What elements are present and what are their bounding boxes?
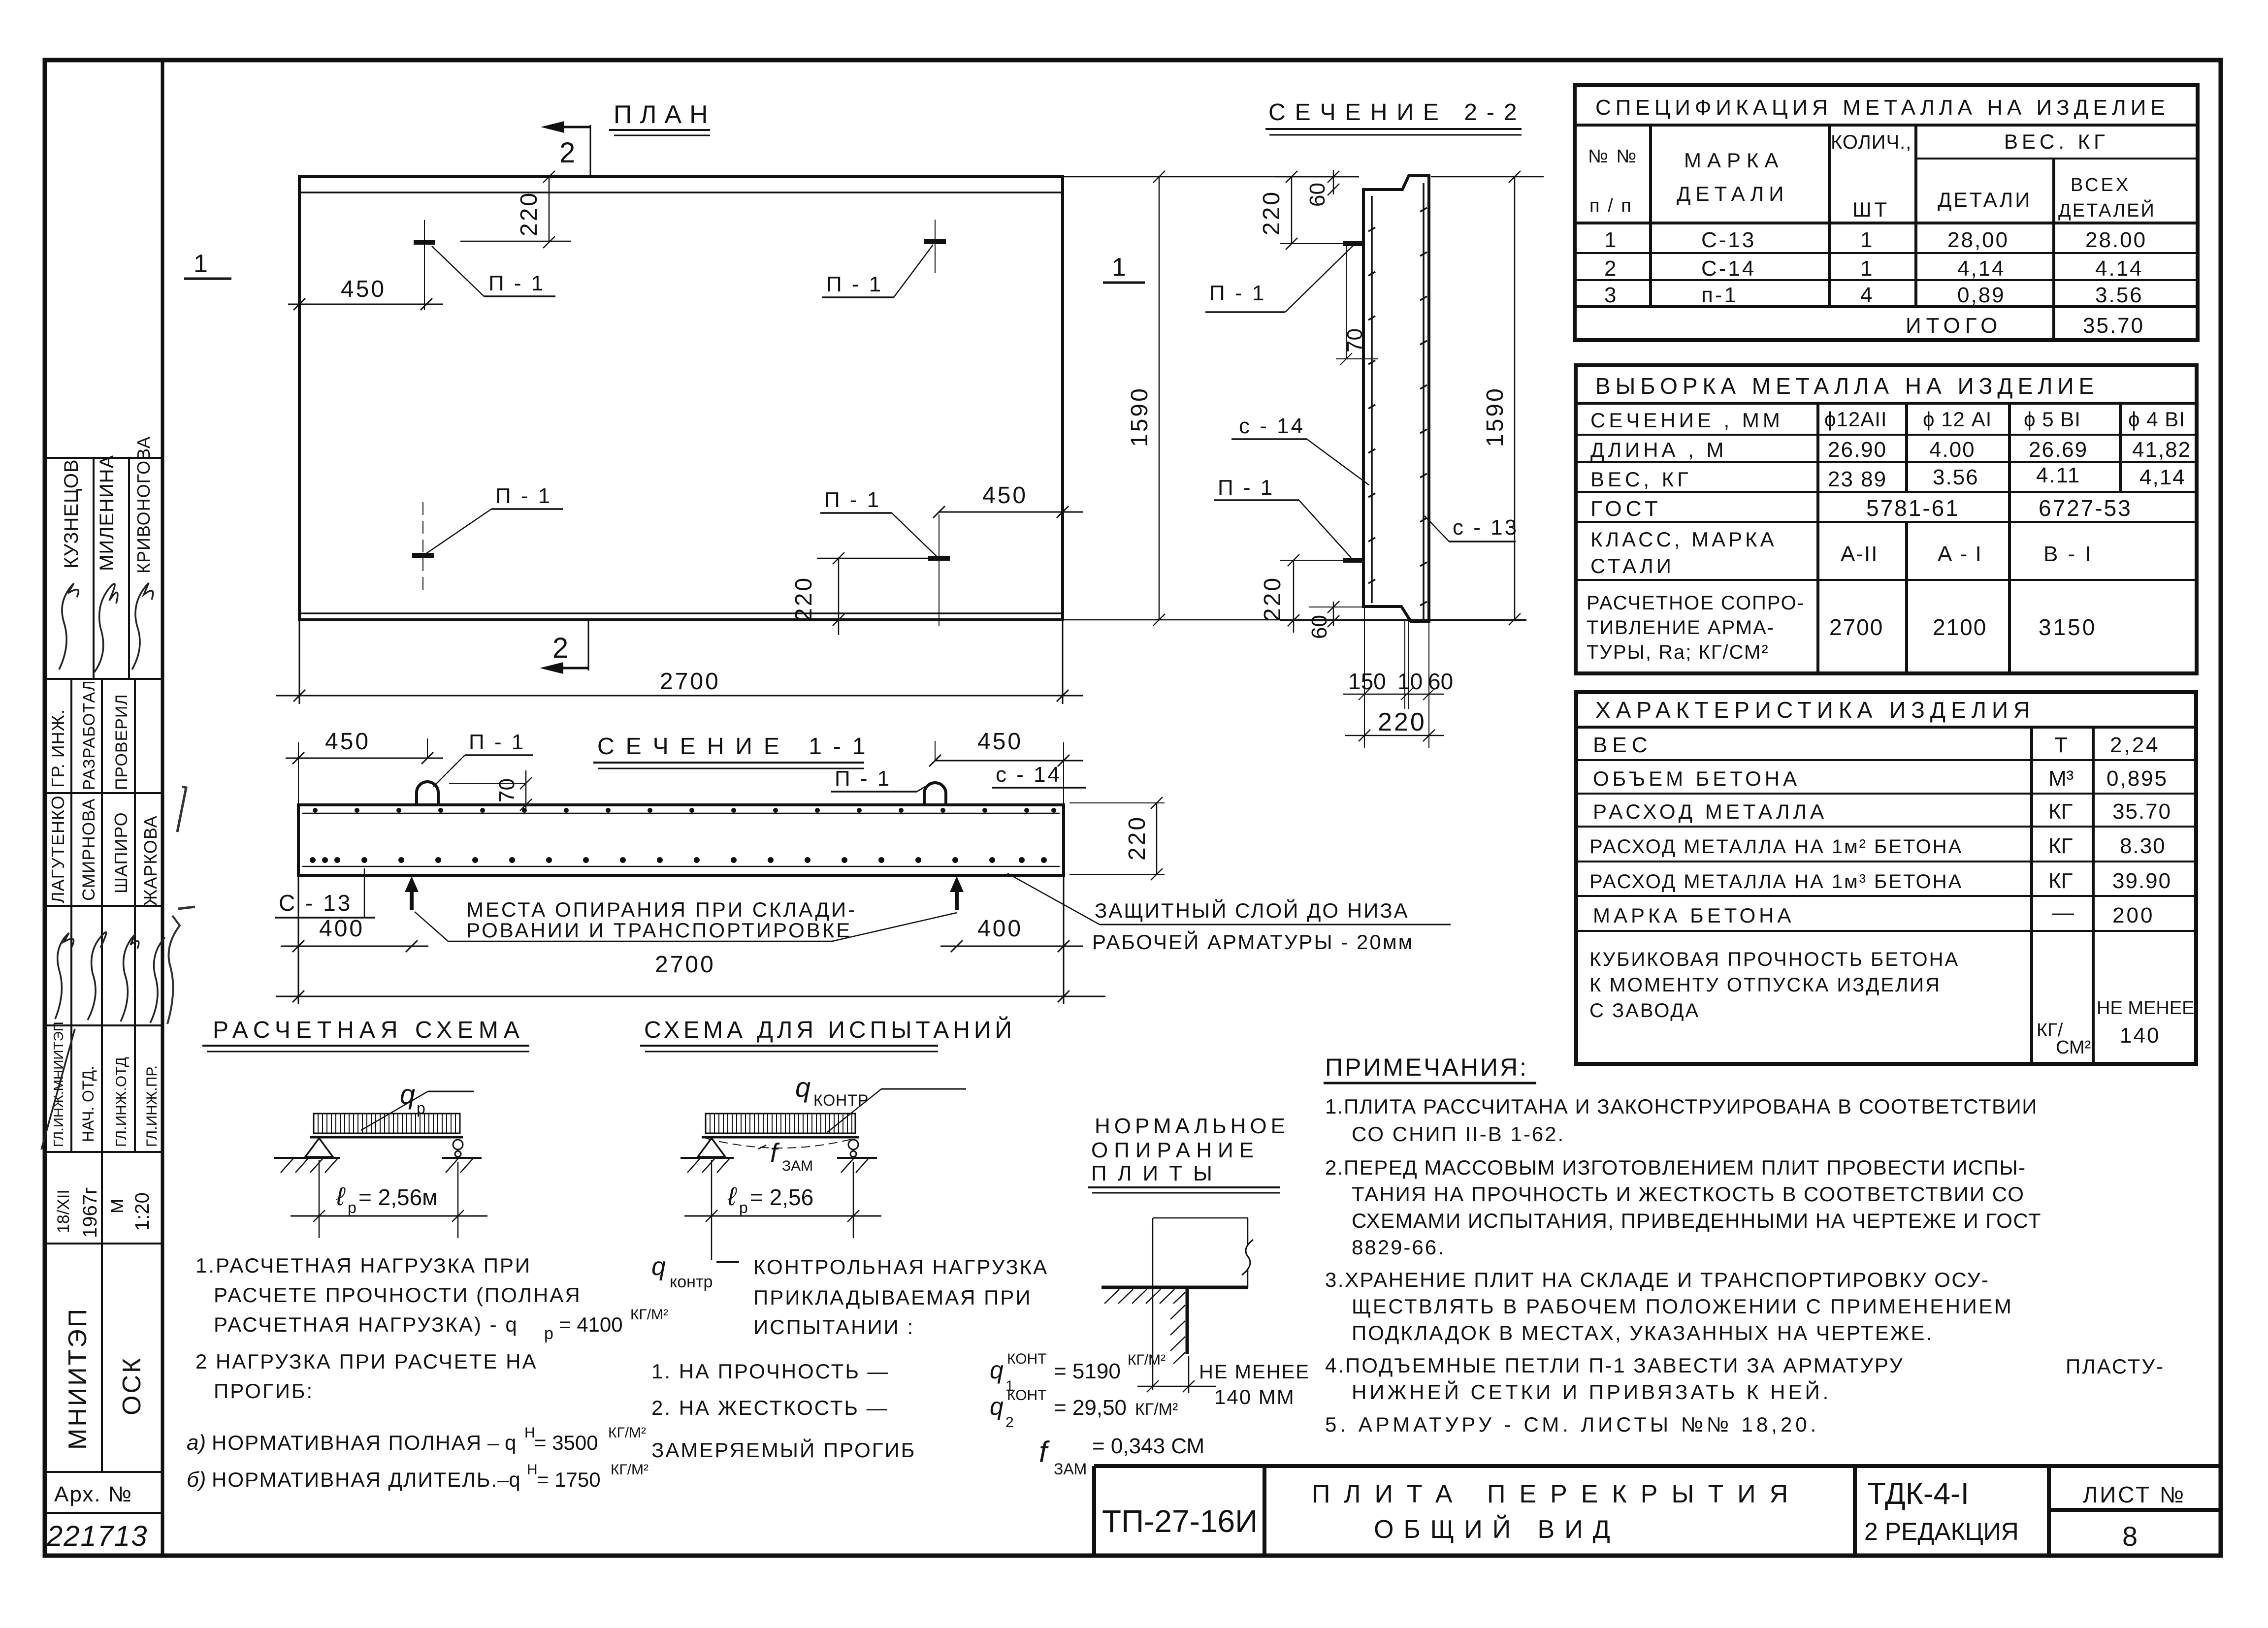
right text column under schemes	[651, 1247, 1204, 1478]
svg-text:КОНТРОЛЬНАЯ НАГРУЗКА: КОНТРОЛЬНАЯ НАГРУЗКА	[753, 1255, 1048, 1278]
loop tick section upper	[1343, 241, 1365, 246]
svg-text:ЛАГУТЕНКО: ЛАГУТЕНКО	[48, 795, 68, 903]
svg-text:р: р	[348, 1199, 356, 1216]
svg-text:ТУРЫ, Rа; КГ/СМ²: ТУРЫ, Rа; КГ/СМ²	[1587, 641, 1769, 663]
svg-text:ПЛАН: ПЛАН	[614, 100, 716, 129]
svg-text:ДЛИНА , М: ДЛИНА , М	[1590, 438, 1727, 461]
svg-text:СМ²: СМ²	[2056, 1037, 2091, 1058]
q_kontr label	[795, 1072, 966, 1132]
dim 220 right (section 1-1)	[1069, 797, 1165, 880]
dim 1590 section right	[1509, 171, 1521, 625]
label P-1 lower-left	[426, 484, 563, 553]
svg-text:НОРМАТИВНАЯ ПОЛНАЯ: НОРМАТИВНАЯ ПОЛНАЯ	[212, 1431, 482, 1454]
svg-text:18/XII: 18/XII	[54, 1189, 73, 1233]
svg-text:КГ/М²: КГ/М²	[1128, 1352, 1166, 1368]
svg-text:220: 220	[1260, 576, 1286, 621]
svg-text:СЕЧЕНИЕ 1-1: СЕЧЕНИЕ 1-1	[597, 734, 877, 760]
svg-text:МИЛЕНИНА: МИЛЕНИНА	[96, 455, 118, 571]
table: metal selection	[1576, 365, 2197, 673]
svg-text:ТДК-4-I: ТДК-4-I	[1867, 1477, 1969, 1511]
svg-text:КОНТ: КОНТ	[1007, 1387, 1046, 1404]
svg-text:НОРМАТИВНАЯ ДЛИТЕЛЬ.: НОРМАТИВНАЯ ДЛИТЕЛЬ.	[212, 1468, 498, 1491]
mesh C-14 top line with bar dots	[302, 808, 1060, 813]
svg-text:1:20: 1:20	[131, 1192, 153, 1231]
svg-text:К МОМЕНТУ ОТПУСКА ИЗДЕЛИЯ: К МОМЕНТУ ОТПУСКА ИЗДЕЛИЯ	[1589, 974, 1941, 996]
svg-text:q: q	[990, 1393, 1004, 1420]
sidebar divider	[161, 60, 164, 1556]
dim 1590 plan right	[1063, 171, 1544, 626]
svg-text:ℓ: ℓ	[727, 1182, 737, 1211]
svg-text:ЗАМ: ЗАМ	[1054, 1460, 1087, 1478]
label P-1 section upper	[1205, 245, 1354, 312]
svg-text:= 2,56: = 2,56	[750, 1184, 813, 1210]
svg-text:ОПИРАНИЕ: ОПИРАНИЕ	[1091, 1138, 1260, 1162]
svg-text:ШТ: ШТ	[1852, 198, 1890, 221]
svg-text:с - 14: с - 14	[996, 763, 1062, 787]
support places text	[415, 898, 957, 942]
svg-text:ПЛАСТУ-: ПЛАСТУ-	[2066, 1355, 2165, 1378]
svg-text:220: 220	[1378, 708, 1426, 736]
notes	[1324, 1053, 2165, 1436]
svg-text:ВЕС, КГ: ВЕС, КГ	[1590, 468, 1692, 491]
svg-text:450: 450	[977, 729, 1023, 755]
svg-text:= 5190: = 5190	[1054, 1359, 1121, 1383]
svg-text:ϕ 5 ВΙ: ϕ 5 ВΙ	[2024, 408, 2081, 431]
svg-text:220: 220	[516, 191, 542, 236]
svg-text:МАРКА БЕТОНА: МАРКА БЕТОНА	[1593, 904, 1795, 927]
svg-text:КГ/М²: КГ/М²	[611, 1462, 648, 1478]
svg-text:П - 1: П - 1	[824, 488, 881, 512]
dim 60 section top	[1328, 170, 1339, 195]
svg-text:q: q	[795, 1072, 810, 1103]
svg-text:Н: Н	[527, 1462, 538, 1478]
svg-text:28.00: 28.00	[2085, 228, 2147, 252]
svg-text:п-1: п-1	[1701, 283, 1738, 307]
section 1-1 title	[593, 734, 877, 768]
svg-text:контр: контр	[670, 1273, 713, 1291]
wall face thick line	[1186, 1287, 1189, 1354]
svg-text:= 4100: = 4100	[559, 1313, 623, 1336]
dim 70 (loop height)	[449, 770, 532, 811]
svg-text:28,00: 28,00	[1947, 228, 2009, 252]
svg-text:1: 1	[1112, 253, 1126, 282]
label C-13 (section 1-1)	[275, 868, 375, 918]
svg-text:5781-61: 5781-61	[1866, 495, 1960, 521]
svg-text:П - 1: П - 1	[488, 271, 545, 295]
svg-text:q: q	[990, 1356, 1004, 1384]
svg-text:2700: 2700	[660, 669, 720, 695]
svg-text:8: 8	[2122, 1521, 2138, 1552]
dim 220 section top	[1280, 171, 1343, 250]
svg-text:П - 1: П - 1	[826, 272, 883, 296]
svg-text:q: q	[400, 1079, 415, 1110]
svg-text:1: 1	[1860, 256, 1872, 281]
svg-text:150: 150	[1348, 669, 1386, 694]
left text column under schemes	[187, 1254, 668, 1492]
svg-text:КУЗНЕЦОВ: КУЗНЕЦОВ	[61, 459, 82, 569]
svg-text:Н: Н	[524, 1425, 535, 1441]
svg-text:ГР. ИНЖ.: ГР. ИНЖ.	[48, 709, 68, 788]
svg-text:2 РЕДАКЦИЯ: 2 РЕДАКЦИЯ	[1864, 1518, 2019, 1545]
svg-text:СО СНИП ΙΙ-В 1-62.: СО СНИП ΙΙ-В 1-62.	[1352, 1122, 1565, 1146]
svg-text:4.00: 4.00	[1929, 438, 1976, 462]
PLAN VIEW	[184, 100, 1544, 704]
svg-text:П - 1: П - 1	[495, 484, 552, 508]
svg-text:р: р	[739, 1199, 748, 1216]
svg-text:5. АРМАТУРУ - СМ. ЛИСТЫ №№: 5. АРМАТУРУ - СМ. ЛИСТЫ №№ 18,20.	[1325, 1413, 1819, 1436]
dim 400 right	[940, 940, 1083, 952]
svg-text:НИЖНЕЙ СЕТКИ И ПРИВЯЗАТЬ: НИЖНЕЙ СЕТКИ И ПРИВЯЗАТЬ К НЕЙ.	[1352, 1380, 1831, 1404]
SECTION 1-1	[275, 729, 1451, 1004]
svg-text:РАСЧЕТЕ ПРОЧНОСТИ (ПОЛНАЯ: РАСЧЕТЕ ПРОЧНОСТИ (ПОЛНАЯ	[214, 1283, 582, 1307]
svg-text:23 89: 23 89	[1828, 467, 1887, 491]
left pin support	[274, 1138, 340, 1173]
svg-text:0,89: 0,89	[1957, 283, 2006, 307]
svg-text:ДЕТАЛИ: ДЕТАЛИ	[1938, 188, 2032, 211]
svg-text:q: q	[651, 1252, 666, 1281]
svg-text:МАРКА: МАРКА	[1684, 149, 1784, 172]
svg-text:2700: 2700	[655, 952, 715, 978]
svg-text:2100: 2100	[1933, 614, 1987, 640]
svg-text:70: 70	[1343, 328, 1367, 352]
svg-text:ХАРАКТЕРИСТИКА ИЗДЕЛИЯ: ХАРАКТЕРИСТИКА ИЗДЕЛИЯ	[1595, 697, 2035, 723]
svg-text:ПРОВЕРИЛ: ПРОВЕРИЛ	[112, 694, 131, 790]
lifting loop tick upper-right	[924, 239, 946, 244]
svg-text:60: 60	[1307, 615, 1331, 639]
svg-text:ВЕС: ВЕС	[1593, 733, 1652, 757]
lifting loop tick upper-left	[414, 240, 435, 245]
svg-text:СХЕМАМИ ИСПЫТАНИЯ, ПРИВЕДЕННЫМ: СХЕМАМИ ИСПЫТАНИЯ, ПРИВЕДЕННЫМИ НА ЧЕРТЕ…	[1352, 1209, 2041, 1232]
svg-text:1. НА ПРОЧНОСТЬ —: 1. НА ПРОЧНОСТЬ —	[651, 1360, 890, 1383]
svg-text:ϕ12АΙΙ: ϕ12АΙΙ	[1824, 408, 1887, 431]
svg-text:ПРОГИБ:: ПРОГИБ:	[214, 1379, 314, 1403]
svg-text:ВСЕХ: ВСЕХ	[2071, 175, 2131, 195]
svg-text:200: 200	[2112, 903, 2154, 927]
svg-text:КГ: КГ	[2048, 799, 2073, 824]
sidebar tables	[45, 458, 162, 1513]
svg-text:КРИВОНОГОВА: КРИВОНОГОВА	[133, 436, 154, 574]
svg-text:С - 13: С - 13	[279, 890, 352, 916]
svg-text:1.РАСЧЕТНАЯ НАГРУЗКА ПРИ: 1.РАСЧЕТНАЯ НАГРУЗКА ПРИ	[195, 1254, 531, 1277]
slab outline plan	[299, 177, 1063, 620]
plan title	[609, 100, 716, 135]
svg-text:ТИВЛЕНИЕ АРМА-: ТИВЛЕНИЕ АРМА-	[1587, 617, 1775, 638]
dim 2700 plan bottom	[276, 620, 1083, 704]
dim 220 bottom center	[1345, 730, 1444, 741]
svg-text:0,895: 0,895	[2106, 766, 2168, 791]
svg-text:ГОСТ: ГОСТ	[1590, 497, 1662, 521]
svg-text:РАСЧЕТНАЯ СХЕМА: РАСЧЕТНАЯ СХЕМА	[213, 1017, 525, 1043]
dim 220 upper	[460, 171, 571, 248]
svg-text:1: 1	[194, 250, 208, 278]
label C-14 (section 1-1)	[992, 763, 1086, 788]
deflection curve	[706, 1138, 855, 1148]
svg-text:3: 3	[1604, 283, 1616, 307]
svg-text:ВЕС. КГ: ВЕС. КГ	[2004, 130, 2109, 153]
dim 400 left	[281, 940, 428, 952]
svg-text:2. НА ЖЕСТКОСТЬ —: 2. НА ЖЕСТКОСТЬ —	[651, 1396, 889, 1419]
svg-text:РАСЧЕТНОЕ СОПРО-: РАСЧЕТНОЕ СОПРО-	[1587, 592, 1805, 614]
svg-text:ЖАРКОВА: ЖАРКОВА	[140, 815, 161, 906]
svg-text:2: 2	[1604, 256, 1616, 281]
svg-text:р: р	[417, 1099, 425, 1117]
q_p label	[361, 1079, 474, 1130]
svg-text:26.69: 26.69	[2029, 438, 2088, 462]
svg-text:= 29,50: = 29,50	[1054, 1396, 1127, 1420]
top extension line	[1275, 176, 1359, 178]
mesh C-13 line	[1420, 183, 1427, 619]
svg-text:Т: Т	[2054, 733, 2068, 757]
svg-text:КЛАСС, МАРКА: КЛАСС, МАРКА	[1590, 528, 1777, 551]
svg-text:КОНТ: КОНТ	[1007, 1351, 1046, 1367]
dim 220 section bottom	[1280, 554, 1343, 633]
slab outline section 2-2	[1363, 176, 1429, 621]
wall/plate outline	[1102, 1218, 1253, 1390]
svg-text:РОВАНИИ И ТРАНСПОРТИРОВКЕ: РОВАНИИ И ТРАНСПОРТИРОВКЕ	[466, 919, 852, 942]
svg-text:– q: – q	[487, 1431, 516, 1454]
svg-text:6727-53: 6727-53	[2039, 495, 2132, 521]
svg-text:1.ПЛИТА РАССЧИТАНА И ЗАКОНСТРУ: 1.ПЛИТА РАССЧИТАНА И ЗАКОНСТРУИРОВАНА В …	[1325, 1095, 2038, 1118]
svg-text:8.30: 8.30	[2120, 834, 2166, 858]
svg-text:8829-66.: 8829-66.	[1352, 1236, 1445, 1259]
svg-text:РАСХОД МЕТАЛЛА НА 1м² БЕТОНА: РАСХОД МЕТАЛЛА НА 1м² БЕТОНА	[1589, 836, 1963, 858]
section mark 2 top	[541, 121, 590, 177]
svg-text:35.70: 35.70	[2083, 314, 2144, 338]
right roller support	[837, 1140, 877, 1173]
svg-text:= 3500: = 3500	[534, 1431, 598, 1454]
svg-text:П - 1: П - 1	[835, 766, 891, 791]
label P-1 lower-right	[820, 488, 937, 556]
CALCULATION SCHEME (left beam diagram)	[202, 1017, 529, 1238]
svg-text:ОСК: ОСК	[118, 1356, 146, 1415]
section mark 1 right	[1103, 253, 1145, 283]
svg-text:ИСПЫТАНИИ :: ИСПЫТАНИИ :	[753, 1315, 914, 1339]
svg-text:ПРИКЛАДЫВАЕМАЯ ПРИ: ПРИКЛАДЫВАЕМАЯ ПРИ	[753, 1286, 1032, 1309]
label P-1 upper-right	[822, 245, 933, 297]
table: specification of metal	[1575, 85, 2198, 340]
dims 150 10 60 bottom	[1343, 607, 1444, 748]
section mark 1 left	[184, 250, 231, 279]
svg-text:С ЗАВОДА: С ЗАВОДА	[1589, 1000, 1700, 1021]
svg-text:ИТОГО: ИТОГО	[1906, 314, 2002, 338]
svg-text:С-13: С-13	[1701, 228, 1756, 252]
svg-text:2 НАГРУЗКА ПРИ РАСЧЕТЕ НА: 2 НАГРУЗКА ПРИ РАСЧЕТЕ НА	[195, 1350, 537, 1373]
svg-text:П - 1: П - 1	[469, 730, 525, 754]
svg-text:КГ/М²: КГ/М²	[608, 1425, 646, 1441]
left pin support	[680, 1138, 734, 1173]
support arrow left	[405, 876, 419, 910]
lifting loop tick lower-right	[928, 556, 950, 561]
svg-text:1: 1	[1604, 228, 1616, 252]
svg-text:П - 1: П - 1	[1218, 476, 1274, 500]
NORMAL BEARING OF SLAB detail	[1088, 1114, 1310, 1408]
label C-13 section	[1425, 515, 1519, 542]
svg-text:2.ПЕРЕД МАССОВЫМ ИЗГОТОВЛЕНИЕМ: 2.ПЕРЕД МАССОВЫМ ИЗГОТОВЛЕНИЕМ ПЛИТ ПРОВ…	[1325, 1156, 2026, 1179]
lifting loop tick lower-left	[412, 553, 434, 558]
svg-text:2700: 2700	[1829, 614, 1883, 640]
svg-text:ТП-27-16И: ТП-27-16И	[1102, 1503, 1258, 1539]
svg-text:СМИРНОВА: СМИРНОВА	[79, 798, 98, 901]
svg-text:КГ: КГ	[2048, 869, 2073, 893]
svg-text:= 0,343 СМ: = 0,343 СМ	[1092, 1434, 1204, 1458]
svg-text:3.56: 3.56	[1933, 465, 1979, 489]
svg-text:220: 220	[1259, 190, 1285, 235]
svg-text:ШАПИРО: ШАПИРО	[111, 812, 131, 894]
svg-text:ЩЕСТВЛЯТЬ В РАБОЧЕМ ПОЛОЖЕНИИ: ЩЕСТВЛЯТЬ В РАБОЧЕМ ПОЛОЖЕНИИ С ПРИМЕНЕН…	[1352, 1295, 2013, 1318]
svg-text:№ №: № №	[1588, 146, 1638, 167]
svg-text:МНИИТЭП: МНИИТЭП	[64, 1307, 92, 1450]
loop tick section lower	[1343, 558, 1365, 563]
svg-text:РАСХОД МЕТАЛЛА: РАСХОД МЕТАЛЛА	[1593, 800, 1827, 823]
title block	[1094, 1466, 2221, 1556]
section 2-2 title	[1265, 99, 1526, 135]
svg-text:450: 450	[341, 276, 386, 302]
svg-text:1967г: 1967г	[79, 1187, 101, 1238]
svg-text:ОБЪЕМ БЕТОНА: ОБЪЕМ БЕТОНА	[1593, 767, 1800, 790]
label P-1 left (section 1-1)	[433, 730, 533, 787]
svg-text:НАЧ. ОТД.: НАЧ. ОТД.	[79, 1066, 97, 1142]
svg-text:60: 60	[1428, 669, 1453, 694]
dim 60 section bottom	[1309, 601, 1364, 627]
label P-1 right (section 1-1)	[831, 766, 927, 792]
svg-text:39.90: 39.90	[2112, 869, 2171, 893]
svg-text:М³: М³	[2048, 766, 2074, 791]
lifting loop П-1 right (section)	[924, 783, 946, 806]
svg-text:НЕ МЕНЕЕ: НЕ МЕНЕЕ	[1199, 1361, 1310, 1383]
svg-text:4,14: 4,14	[2139, 465, 2186, 489]
svg-text:А-ΙΙ: А-ΙΙ	[1841, 542, 1878, 566]
svg-text:41,82: 41,82	[2132, 438, 2191, 462]
section mark 2 bottom	[540, 621, 588, 674]
svg-text:ϕ 4 ВΙ: ϕ 4 ВΙ	[2128, 408, 2185, 431]
dim 70 section	[1336, 246, 1378, 365]
protective layer note	[1007, 873, 1451, 954]
svg-text:1590: 1590	[1482, 386, 1508, 447]
svg-text:140: 140	[2120, 1023, 2160, 1048]
dim 450 right (section 1-1)	[929, 741, 1083, 807]
TEST SCHEME (right beam diagram)	[640, 1016, 1016, 1260]
svg-text:220: 220	[1124, 815, 1150, 861]
svg-text:РАСХОД МЕТАЛЛА НА 1м³ БЕТОНА: РАСХОД МЕТАЛЛА НА 1м³ БЕТОНА	[1589, 871, 1963, 893]
svg-text:КГ/М²: КГ/М²	[630, 1307, 668, 1323]
lifting loop П-1 left (section)	[417, 782, 438, 806]
svg-text:с - 13: с - 13	[1453, 515, 1519, 540]
svg-text:КГ/М²: КГ/М²	[1135, 1400, 1178, 1419]
svg-text:220: 220	[791, 576, 817, 621]
svg-text:1: 1	[1860, 228, 1872, 252]
dim 2700 (section 1-1)	[276, 875, 1105, 1004]
svg-text:ВЫБОРКА МЕТАЛЛА НА ИЗДЕЛ: ВЫБОРКА МЕТАЛЛА НА ИЗДЕЛИЕ	[1595, 373, 2099, 399]
svg-text:ℓ: ℓ	[336, 1182, 346, 1211]
svg-text:МЕСТА ОПИРАНИЯ ПРИ СКЛАДИ-: МЕСТА ОПИРАНИЯ ПРИ СКЛАДИ-	[466, 898, 857, 921]
svg-text:КОЛИЧ.,: КОЛИЧ.,	[1831, 131, 1912, 153]
dim 450 upper-left	[288, 298, 443, 310]
svg-text:450: 450	[325, 729, 370, 755]
svg-text:—: —	[2052, 900, 2074, 925]
svg-text:НОРМАЛЬНОЕ: НОРМАЛЬНОЕ	[1095, 1114, 1289, 1138]
svg-text:КГ: КГ	[2048, 834, 2073, 858]
svg-text:а): а)	[187, 1431, 206, 1455]
svg-text:НЕ МЕНЕЕ: НЕ МЕНЕЕ	[2097, 998, 2194, 1019]
svg-text:400: 400	[977, 916, 1023, 942]
svg-text:П - 1: П - 1	[1209, 281, 1266, 305]
svg-text:СПЕЦИФИКАЦИЯ МЕТАЛЛА НА ИЗД: СПЕЦИФИКАЦИЯ МЕТАЛЛА НА ИЗДЕЛИЕ	[1595, 96, 2170, 120]
dim 450 lower-right	[933, 506, 1083, 518]
svg-text:ОБЩИЙ ВИД: ОБЩИЙ ВИД	[1374, 1515, 1620, 1544]
svg-text:ДЕТАЛИ: ДЕТАЛИ	[1677, 182, 1788, 205]
svg-text:М: М	[107, 1199, 127, 1213]
label P-1 section lower	[1214, 476, 1351, 558]
diagonal slash over roles cell	[41, 1029, 75, 1149]
svg-text:п / п: п / п	[1589, 195, 1633, 216]
svg-text:221713: 221713	[46, 1520, 148, 1552]
svg-text:ГЛ.ИНЖ.МНИИТЭП: ГЛ.ИНЖ.МНИИТЭП	[51, 1021, 66, 1147]
margin pencil marks	[167, 787, 195, 1024]
svg-text:СТАЛИ: СТАЛИ	[1590, 554, 1674, 577]
hatching along wall face	[1170, 1305, 1185, 1364]
svg-text:РАБОЧЕЙ АРМАТУРЫ - 20мм: РАБОЧЕЙ АРМАТУРЫ - 20мм	[1092, 930, 1414, 954]
slab outline section 1-1	[298, 805, 1064, 875]
svg-text:ЗАМЕРЯЕМЫЙ ПРОГИБ: ЗАМЕРЯЕМЫЙ ПРОГИБ	[651, 1438, 916, 1462]
svg-text:2: 2	[1005, 1414, 1014, 1431]
svg-text:р: р	[544, 1324, 553, 1343]
svg-text:3150: 3150	[2039, 614, 2097, 640]
svg-text:400: 400	[319, 916, 364, 942]
svg-text:1590: 1590	[1127, 386, 1153, 447]
beam line	[310, 1136, 463, 1139]
svg-text:4,14: 4,14	[1957, 256, 2006, 281]
signature scrawls sidebar second band	[55, 932, 165, 1023]
svg-text:450: 450	[982, 482, 1028, 509]
svg-text:ТАНИЯ НА ПРОЧНОСТЬ И ЖЕСТКОСТЬ: ТАНИЯ НА ПРОЧНОСТЬ И ЖЕСТКОСТЬ В СООТВЕТ…	[1352, 1182, 2025, 1206]
svg-text:ϕ 12 АΙ: ϕ 12 АΙ	[1923, 408, 1992, 431]
slab seat thick line	[1102, 1286, 1248, 1289]
svg-text:Арх. №: Арх. №	[54, 1482, 132, 1506]
svg-text:ЗАЩИТНЫЙ СЛОЙ ДО НИЗА: ЗАЩИТНЫЙ СЛОЙ ДО НИЗА	[1095, 898, 1409, 922]
svg-text:= 2,56м: = 2,56м	[358, 1184, 438, 1210]
svg-text:ЛИСТ №: ЛИСТ №	[2083, 1482, 2186, 1507]
svg-text:ДЕТАЛЕЙ: ДЕТАЛЕЙ	[2058, 199, 2156, 221]
beam line	[702, 1136, 859, 1139]
support arrow right	[950, 876, 964, 910]
svg-text:В - Ι: В - Ι	[2043, 542, 2093, 566]
dim lp=2,56	[684, 1160, 881, 1260]
svg-text:26.90: 26.90	[1828, 438, 1887, 462]
load strip with hatch	[314, 1114, 460, 1133]
svg-text:ГЛ.ИНЖ.ПР.: ГЛ.ИНЖ.ПР.	[144, 1065, 160, 1147]
dim lp=2,56m	[291, 1160, 487, 1238]
svg-text:ПРИМЕЧАНИЯ:: ПРИМЕЧАНИЯ:	[1325, 1053, 1528, 1081]
svg-text:4.11: 4.11	[2036, 463, 2080, 487]
svg-text:ПОДКЛАДОК В МЕСТАХ, УКАЗАННЫХ: ПОДКЛАДОК В МЕСТАХ, УКАЗАННЫХ НА ЧЕРТЕЖЕ…	[1352, 1321, 1933, 1344]
svg-text:—: —	[716, 1247, 739, 1273]
right roller support	[442, 1140, 482, 1173]
svg-text:РАЗРАБОТАЛ: РАЗРАБОТАЛ	[80, 680, 98, 790]
dim 140	[1137, 1356, 1216, 1393]
svg-text:3.56: 3.56	[2095, 283, 2143, 307]
svg-text:4.ПОДЪЕМНЫЕ ПЕТЛИ П-1 ЗАВЕСТИ: 4.ПОДЪЕМНЫЕ ПЕТЛИ П-1 ЗАВЕСТИ ЗА АРМАТУР…	[1325, 1354, 1904, 1377]
load strip with hatch	[706, 1114, 855, 1133]
hatching under seat	[1104, 1289, 1185, 1304]
sidebar rotated texts	[46, 436, 161, 1552]
svg-text:СХЕМА ДЛЯ ИСПЫТАНИЙ: СХЕМА ДЛЯ ИСПЫТАНИЙ	[644, 1016, 1016, 1043]
svg-text:3.ХРАНЕНИЕ ПЛИТ НА СКЛАДЕ И ТР: 3.ХРАНЕНИЕ ПЛИТ НА СКЛАДЕ И ТРАНСПОРТИРО…	[1325, 1268, 1990, 1291]
svg-text:А - Ι: А - Ι	[1938, 542, 1982, 566]
svg-text:= 1750: = 1750	[537, 1468, 601, 1491]
svg-text:ГЛ.ИНЖ.ОТД: ГЛ.ИНЖ.ОТД	[113, 1057, 130, 1147]
svg-text:СЕЧЕНИЕ 2-2: СЕЧЕНИЕ 2-2	[1268, 99, 1526, 126]
svg-text:С-14: С-14	[1701, 256, 1756, 281]
